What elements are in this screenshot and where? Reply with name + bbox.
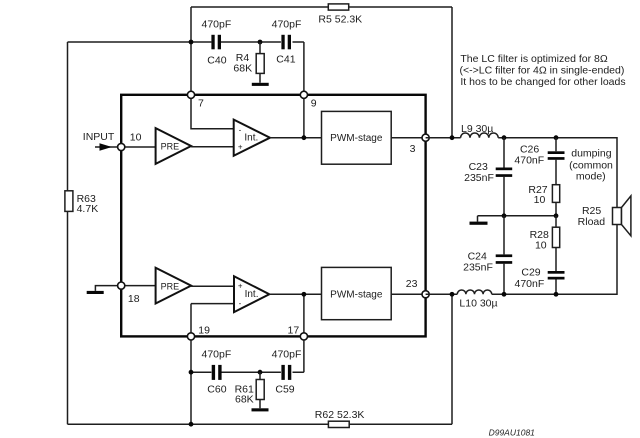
svg-text:235nF: 235nF — [463, 262, 493, 274]
svg-text:10: 10 — [535, 240, 547, 252]
junction node Int1 output — [302, 135, 307, 140]
ground (R61) — [252, 408, 269, 411]
capacitor C29 — [548, 271, 565, 294]
svg-text:R62 52.3K: R62 52.3K — [315, 409, 365, 421]
wire input node to PRE1 — [121, 146, 156, 148]
svg-text:68K: 68K — [233, 62, 252, 74]
capacitor C26 — [548, 138, 565, 185]
svg-text:Int.: Int. — [244, 132, 258, 143]
svg-text:R5 52.3K: R5 52.3K — [318, 14, 362, 26]
input arrowhead — [100, 143, 112, 151]
pin 19 — [187, 333, 194, 340]
svg-text:D99AU1081: D99AU1081 — [489, 428, 536, 438]
PWM-stage block (lower) — [322, 267, 392, 319]
inductor L9 — [461, 133, 499, 138]
inductor L10 — [457, 290, 491, 294]
junction node C29 bottom — [554, 292, 559, 297]
capacitor C23 — [496, 138, 513, 216]
svg-text:PRE: PRE — [161, 281, 180, 291]
capacitor C60 — [212, 365, 222, 380]
PWM-stage block (upper) — [322, 111, 392, 164]
op-amp Int2 (lower integrator) — [234, 276, 269, 312]
ground (pin 18) — [87, 286, 121, 294]
wire PWM1 to pin 3 — [391, 137, 425, 139]
svg-text:It hos to be changed for other: It hos to be changed for other loads — [460, 76, 625, 88]
svg-text:19: 19 — [198, 324, 210, 336]
wire upper output line pin3 to L9 — [426, 137, 461, 139]
svg-text:235nF: 235nF — [464, 172, 494, 184]
junction node lower feedback tap — [450, 292, 455, 297]
IC block TDA7481 outline — [121, 95, 425, 337]
svg-text:23: 23 — [406, 278, 418, 290]
wire pin19 drop to bottom rail — [190, 338, 192, 424]
svg-text:The LC filter is optimized for: The LC filter is optimized for 8Ω — [460, 53, 607, 65]
wire top feedback right drop to node 3 — [451, 7, 453, 138]
op-amp PRE1 — [156, 128, 192, 164]
junction node at C40 left — [189, 40, 194, 45]
svg-text:C60: C60 — [207, 383, 226, 395]
capacitor C40 — [211, 35, 221, 50]
junction node C26 top — [554, 135, 559, 140]
svg-text:C40: C40 — [207, 55, 226, 67]
svg-text:L10 30µ: L10 30µ — [459, 297, 497, 309]
wire upper output line L9 to right rail — [498, 138, 617, 208]
svg-text:Int.: Int. — [245, 289, 259, 300]
pin 18 — [118, 282, 125, 289]
pin 3 — [422, 134, 429, 141]
svg-text:C24: C24 — [468, 250, 487, 262]
ground (mid filter) — [470, 216, 488, 225]
svg-text:C23: C23 — [469, 161, 488, 173]
wire mid ground row — [478, 215, 557, 217]
svg-text:470pF: 470pF — [272, 348, 302, 360]
wire left rail — [67, 42, 69, 424]
junction node upper feedback tap — [450, 135, 455, 140]
junction node C23 top — [502, 135, 507, 140]
svg-text:470nF: 470nF — [515, 278, 545, 290]
junction node at C60 left — [189, 370, 194, 375]
pin 23 — [422, 291, 429, 298]
svg-text:17: 17 — [288, 324, 300, 336]
svg-text:4.7K: 4.7K — [77, 203, 99, 215]
resistor R28 — [552, 216, 559, 271]
pin 10 — [118, 143, 125, 150]
wire pin19 to integrator minus input — [191, 304, 234, 335]
svg-text:L9 30µ: L9 30µ — [461, 123, 493, 135]
wire top feedback left drop to pin 7 — [190, 7, 192, 92]
wire bottom capacitor row — [191, 338, 304, 372]
svg-text:Rload: Rload — [578, 216, 606, 228]
svg-text:PWM-stage: PWM-stage — [330, 289, 383, 300]
svg-text:(common: (common — [569, 159, 613, 171]
junction node mid R27/R28 — [554, 213, 559, 218]
svg-text:470pF: 470pF — [272, 18, 302, 30]
svg-text:10: 10 — [534, 194, 546, 206]
wire pin9 drop to output line — [303, 96, 305, 138]
svg-text:mode): mode) — [576, 171, 606, 183]
pin 7 — [187, 91, 194, 98]
svg-text:9: 9 — [311, 98, 317, 110]
junction node mid C23/C24 — [502, 213, 507, 218]
pin 9 — [300, 91, 307, 98]
resistor R61 — [256, 372, 264, 408]
op-amp PRE2 — [156, 268, 192, 304]
svg-text:470nF: 470nF — [514, 155, 544, 167]
svg-text:(<->LC filter for 4Ω in single: (<->LC filter for 4Ω in single-ended) — [460, 65, 625, 77]
svg-text:+: + — [238, 282, 243, 291]
wire lower output line pin23 to L10 — [426, 293, 458, 295]
wire top feedback run — [191, 6, 452, 8]
wire pin18 to PRE2 — [121, 285, 156, 287]
op-amp Int1 (upper integrator) — [234, 120, 270, 156]
wire bottom rail — [68, 423, 453, 425]
capacitor C59 — [281, 365, 291, 380]
resistor R27 — [552, 185, 559, 216]
pin 17 — [300, 333, 307, 340]
resistor R4 — [256, 42, 264, 83]
svg-text:18: 18 — [128, 293, 140, 305]
svg-text:C41: C41 — [276, 54, 295, 66]
resistor R62 — [328, 421, 349, 427]
svg-text:PRE: PRE — [161, 142, 180, 152]
svg-text:INPUT: INPUT — [83, 131, 115, 143]
svg-text:3: 3 — [410, 143, 416, 155]
resistor R63 — [65, 191, 73, 212]
wire PRE1 to integrator plus input — [191, 146, 234, 148]
svg-text:+: + — [238, 143, 243, 152]
wire lower feedback drop — [451, 294, 453, 424]
resistor R5 — [328, 4, 348, 10]
speaker R25 load — [613, 196, 631, 236]
svg-text:470pF: 470pF — [202, 348, 232, 360]
wire pin7 to integrator minus input — [191, 96, 234, 129]
wire lower output line L10 to right rail — [492, 225, 617, 295]
wire Int2 output to PWM2 — [269, 293, 321, 295]
svg-text:470pF: 470pF — [202, 18, 232, 30]
wire INPUT lead — [95, 146, 118, 148]
ground (R4) — [252, 83, 269, 86]
svg-text:-: - — [239, 125, 242, 134]
svg-text:dumping: dumping — [571, 148, 611, 160]
svg-text:PWM-stage: PWM-stage — [330, 133, 383, 144]
junction node at R61 top — [258, 370, 263, 375]
svg-text:C29: C29 — [521, 267, 540, 279]
wire top capacitor row — [68, 42, 304, 92]
svg-text:C59: C59 — [275, 383, 294, 395]
junction node at R4 top — [258, 40, 263, 45]
junction node Int2 output — [302, 292, 307, 297]
capacitor C41 — [281, 35, 291, 50]
junction node C24 bottom — [502, 292, 507, 297]
wire Int1 output to PWM1 — [270, 137, 322, 139]
wire PRE2 to integrator plus input — [191, 285, 234, 287]
svg-text:10: 10 — [130, 132, 142, 144]
capacitor C24 — [496, 216, 513, 294]
svg-text:-: - — [239, 299, 242, 308]
junction node bottom rail / pin19 branch — [189, 422, 194, 427]
svg-text:7: 7 — [198, 98, 204, 110]
svg-text:68K: 68K — [235, 394, 254, 406]
wire pin17 rise from output line — [303, 294, 305, 335]
wire PWM2 to pin 23 — [391, 293, 425, 295]
